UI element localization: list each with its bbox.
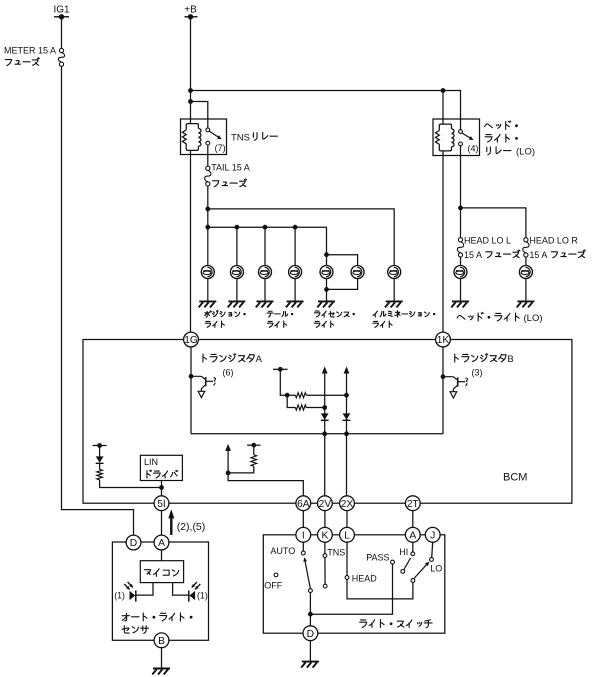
wire to lamp2	[236, 227, 238, 265]
connector 1G	[184, 332, 199, 347]
contact dimmer pivot	[411, 579, 415, 583]
wire 2T to switch A	[412, 510, 414, 528]
wire to lamp3	[264, 227, 266, 265]
node junction +B rail	[188, 88, 193, 93]
svg-text:(1): (1)	[197, 590, 208, 600]
lamp license lamp 1	[320, 266, 333, 279]
wire +B down to TNS relay coil	[190, 17, 192, 124]
label illumination lights	[373, 311, 377, 317]
fuse TAIL 15 A	[206, 166, 210, 170]
wire head lamp left to ground	[460, 279, 462, 301]
svg-text:(1): (1)	[114, 590, 125, 600]
label transistor B	[455, 354, 459, 362]
svg-text:15 A: 15 A	[529, 250, 547, 260]
svg-text:PASS: PASS	[366, 553, 389, 563]
svg-text:6A: 6A	[297, 499, 310, 510]
connector 1K	[436, 332, 451, 347]
wire I to AUTO contact	[302, 542, 304, 551]
wire tail lamp 1 to ground	[264, 279, 266, 301]
svg-text:1K: 1K	[437, 335, 450, 346]
svg-text:(LO): (LO)	[516, 146, 535, 157]
wire to HEAD LO R fuse	[461, 208, 526, 238]
svg-text:15 A: 15 A	[464, 250, 482, 260]
wire 2V to switch K	[324, 510, 326, 528]
wire tail lamp 2 to ground	[294, 279, 296, 301]
svg-text:BCM: BCM	[503, 472, 527, 484]
module BCM box	[83, 340, 572, 504]
svg-text:TNS: TNS	[327, 547, 345, 557]
node junction 2X inner-box bottom	[344, 431, 349, 436]
pin A sensor	[154, 535, 169, 550]
wire head relay switch to fuse junction	[460, 146, 462, 238]
svg-text:LO: LO	[430, 564, 442, 574]
label position lights	[205, 311, 211, 317]
svg-text:METER 15 A: METER 15 A	[4, 46, 56, 56]
connector 6A	[296, 496, 311, 511]
wire TAIL fuse down to position lamps	[207, 186, 209, 265]
photodiode right (1)	[188, 591, 190, 602]
wire 2V line with signal arrow	[322, 367, 328, 374]
ground tail lamp 2	[287, 300, 304, 302]
wire IG1 down to METER fuse	[61, 17, 63, 49]
relay TNS contact upper	[206, 128, 210, 132]
label microcomputer	[144, 570, 151, 575]
label auto light sensor	[122, 613, 129, 621]
svg-text:B: B	[158, 636, 165, 647]
contact HEAD	[345, 576, 349, 580]
ground switch D	[302, 661, 319, 663]
svg-text:HEAD LO L: HEAD LO L	[464, 235, 511, 245]
lamp position lamp 1	[201, 266, 214, 279]
node junction 2V inner-box bottom	[322, 431, 327, 436]
pin L switch	[340, 527, 355, 542]
wire illumination lamp to ground	[393, 279, 395, 301]
wire HEAD LO L fuse to lamp	[460, 257, 462, 265]
diode D3	[96, 456, 104, 462]
switch arm main (AUTO)	[305, 562, 310, 589]
svg-text:5I: 5I	[157, 499, 166, 510]
ic microcomputer box	[140, 561, 183, 583]
pin A switch	[405, 527, 420, 542]
wire microcomputer right leg	[173, 583, 189, 596]
pin K switch	[318, 527, 333, 542]
wire switch D to ground	[309, 640, 311, 661]
relay head light coil	[436, 124, 455, 151]
ground position lamp 2	[228, 300, 245, 302]
label head light relay (LO)	[485, 124, 493, 128]
ground sensor B	[153, 668, 170, 670]
wire J to LO contact	[432, 542, 433, 558]
svg-text:I: I	[302, 531, 305, 542]
relay head light contact lower	[459, 142, 463, 146]
wire LIN driver to 5I	[161, 481, 163, 497]
wire position lamp 2 to ground	[236, 279, 238, 301]
wire arm pivot to common node	[309, 593, 311, 627]
node junction 6A resistor	[226, 471, 231, 476]
svg-text:(4): (4)	[468, 143, 479, 153]
ground position lamp 1	[199, 300, 216, 302]
wire A to microcomputer	[161, 550, 163, 561]
pin D switch	[303, 626, 318, 641]
ground head lamp right	[517, 300, 534, 302]
lamp tail lamp 1	[259, 266, 272, 279]
node junction tail rail 1	[205, 207, 210, 212]
wire +B rail to head light relay	[191, 91, 461, 130]
relay TNS switch arm	[209, 131, 218, 137]
svg-text:(6): (6)	[223, 368, 234, 378]
svg-text:2X: 2X	[341, 499, 354, 510]
node power tap for resistor R3	[247, 444, 260, 446]
ground head lamp left	[452, 300, 469, 302]
wire position lamp 1 to ground	[207, 279, 209, 301]
wire branch to diode D3	[100, 480, 162, 488]
node junction 5I branch	[159, 485, 164, 490]
wire 2X to switch L	[346, 510, 348, 528]
svg-text:(3): (3)	[472, 368, 483, 378]
relay head light (LO) box	[433, 119, 480, 156]
svg-text:IG1: IG1	[53, 5, 70, 16]
svg-text:D: D	[307, 629, 314, 640]
svg-text:+B: +B	[184, 5, 197, 16]
module light switch box	[263, 535, 445, 633]
contact PASS	[391, 560, 395, 564]
svg-text:A: A	[256, 354, 263, 365]
wire license lamp 2 branch	[327, 255, 358, 266]
svg-text:TNS: TNS	[231, 132, 250, 143]
svg-text:AUTO: AUTO	[270, 546, 295, 556]
svg-text:(LO): (LO)	[524, 313, 543, 324]
contact AUTO	[301, 551, 305, 555]
label license lights	[314, 311, 320, 317]
wire microcomputer left leg	[137, 583, 154, 596]
node power tap diode D3	[99, 446, 101, 457]
ground license lamps	[318, 300, 335, 302]
svg-text:TAIL 15 A: TAIL 15 A	[211, 163, 250, 173]
wire HEAD LO R fuse to lamp	[525, 257, 527, 265]
wire head relay coil feed	[442, 91, 444, 124]
lamp tail lamp 2	[289, 266, 302, 279]
svg-text:J: J	[430, 531, 435, 542]
module auto light sensor box	[112, 542, 208, 640]
photodiode left (1)	[135, 591, 137, 602]
relay head light contact upper	[459, 130, 463, 134]
wire 2X line with signal arrow	[344, 367, 350, 374]
contact arm alternate pivot	[401, 570, 405, 574]
lamp head light LO left	[454, 266, 467, 279]
wire TNS coil to BCM 1G	[190, 150, 192, 332]
wire head lamp right to ground	[525, 279, 527, 301]
wire license lamp 1 to ground	[326, 279, 328, 301]
connector 2T	[405, 496, 420, 511]
wire to lamp4	[294, 227, 296, 265]
label transistor A	[203, 354, 207, 362]
contact OFF	[274, 573, 278, 577]
wire common to PASS contact	[310, 564, 392, 614]
wire K to TNS contact	[324, 542, 326, 554]
svg-text:L: L	[344, 531, 350, 542]
wire 6A to switch I	[302, 510, 304, 528]
switch arm dimmer (to LO)	[414, 565, 427, 579]
wire A to HI contact	[412, 542, 414, 552]
svg-text:OFF: OFF	[264, 581, 282, 591]
switch arm alternate (HI position)	[404, 558, 411, 570]
svg-text:(2),(5): (2),(5)	[177, 521, 206, 533]
resistor R1 (to 2X line)	[287, 394, 295, 396]
contact TNS	[323, 554, 327, 558]
pin B sensor	[154, 633, 169, 648]
ic LIN driver box	[140, 455, 182, 480]
fuse HEAD LO L 15 A	[458, 238, 462, 242]
node junction head fuses	[458, 206, 463, 211]
pin I switch	[296, 527, 311, 542]
node junction R2-2V	[322, 405, 327, 410]
contact arm main pivot	[309, 589, 313, 593]
wire 6A signal with arrow up	[225, 444, 231, 451]
contact TNS pendant end	[323, 584, 327, 588]
wire 5I to sensor A	[161, 510, 163, 535]
ground illumination lamp	[386, 300, 403, 302]
lamp illumination lamp	[388, 266, 401, 279]
label head light (LO)	[457, 315, 465, 319]
wire L to HEAD contact	[346, 542, 348, 576]
svg-text:HEAD: HEAD	[352, 573, 378, 583]
diode D2 on 2X line	[343, 413, 351, 419]
resistor R4	[97, 469, 103, 480]
svg-text:1G: 1G	[184, 335, 198, 346]
wire inner box bottom edge	[191, 433, 443, 435]
svg-text:B: B	[507, 354, 513, 365]
transistor Q-B	[441, 374, 446, 379]
diode D1 on 2V line	[321, 413, 329, 419]
lamp position lamp 2	[230, 266, 243, 279]
connector 5I	[154, 496, 169, 511]
wire license lamp 2 bottom	[327, 279, 358, 290]
relay TNS contact lower	[206, 141, 210, 145]
node junction R1-2X	[344, 393, 349, 398]
transistor Q-A	[189, 374, 194, 379]
relay TNS coil	[182, 124, 201, 151]
label light switch	[360, 620, 367, 628]
svg-text:D: D	[130, 538, 137, 549]
contact HI	[411, 552, 415, 556]
wire TNS switch feed	[191, 102, 208, 129]
lamp head light LO right	[519, 266, 532, 279]
lamp license lamp 2	[351, 266, 364, 279]
resistor R3	[253, 445, 255, 455]
node power tap for pull-up resistors	[273, 368, 288, 370]
wire tail rail to illumination lamp	[208, 209, 394, 265]
node junction switch common	[308, 612, 313, 617]
node junction tail rail 2	[205, 225, 210, 230]
wire B to ground	[161, 647, 163, 668]
node junction lamp2	[235, 225, 240, 230]
pin D sensor	[126, 535, 141, 550]
wire inner box right edge (1K line)	[442, 347, 444, 434]
svg-text:(7): (7)	[215, 143, 226, 153]
svg-text:LIN: LIN	[144, 457, 158, 467]
pin J switch	[425, 527, 440, 542]
node junction TNS switch feed	[188, 99, 193, 104]
contact LO	[430, 558, 434, 562]
svg-text:HI: HI	[399, 547, 408, 557]
svg-text:K: K	[321, 531, 328, 542]
connector 2X	[340, 496, 355, 511]
signal arrow (2),(5)	[168, 509, 174, 518]
wire HEAD to dimmer pivot	[347, 579, 413, 599]
label tail lights	[267, 311, 273, 317]
wire TNS switch to TAIL fuse	[207, 145, 209, 166]
fuse HEAD LO R 15 A	[524, 238, 528, 242]
connector 2V	[318, 496, 333, 511]
node junction resistor branch	[285, 393, 290, 398]
svg-text:A: A	[409, 531, 416, 542]
node junction lamp4	[293, 225, 298, 230]
wire TNS contact pendant	[324, 558, 326, 585]
node junction license lamps bottom	[324, 287, 329, 292]
wire METER fuse to auto-light-sensor D	[62, 66, 134, 535]
svg-text:2T: 2T	[407, 499, 419, 510]
fuse METER 15 A	[59, 48, 63, 52]
svg-text:HEAD LO R: HEAD LO R	[529, 235, 578, 245]
wire inner box left edge (1G line)	[190, 347, 192, 434]
resistor R2 (to 2V line)	[287, 395, 295, 407]
node junction license branch	[324, 252, 329, 257]
wire tail rail 2	[208, 227, 327, 265]
wire tap to resistors	[280, 369, 287, 395]
node junction lamp3	[263, 225, 268, 230]
ground tail lamp 1	[257, 300, 274, 302]
wire head relay coil to BCM 1K	[442, 151, 444, 333]
svg-text:2V: 2V	[319, 499, 332, 510]
relay head light switch arm	[462, 133, 470, 138]
node junction head relay coil feed	[441, 88, 446, 93]
svg-text:A: A	[158, 538, 165, 549]
relay TNS box	[181, 119, 227, 155]
